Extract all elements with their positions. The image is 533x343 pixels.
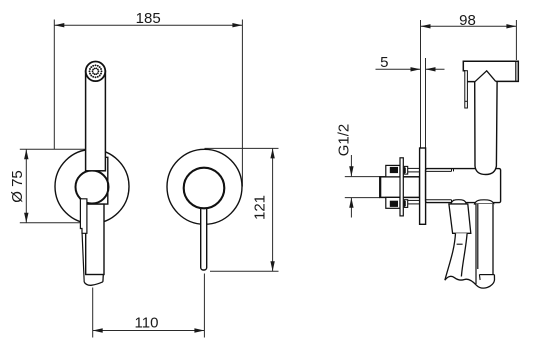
- svg-text:Ø 75: Ø 75: [9, 170, 26, 203]
- svg-text:5: 5: [380, 54, 388, 71]
- svg-text:185: 185: [136, 10, 161, 27]
- svg-text:121: 121: [252, 195, 269, 220]
- svg-text:98: 98: [459, 12, 476, 29]
- svg-text:G1/2: G1/2: [335, 124, 352, 157]
- svg-text:110: 110: [135, 315, 159, 332]
